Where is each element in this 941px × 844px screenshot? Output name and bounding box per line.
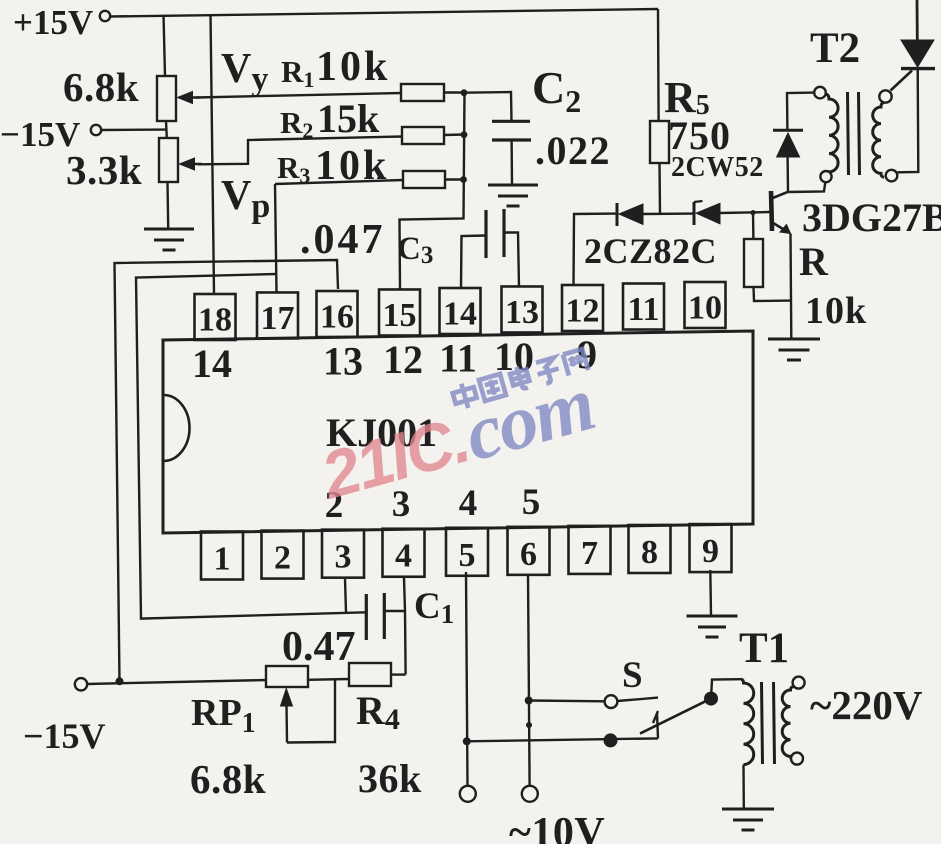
ground (T1) xyxy=(722,808,774,811)
wire C2 to ground xyxy=(510,140,513,184)
ground (C2) xyxy=(488,184,538,187)
svg-text:−15V: −15V xyxy=(23,716,106,756)
node junction dots on bus xyxy=(461,89,468,96)
wire pin 6 riser to terminal xyxy=(528,574,530,786)
svg-text:10k: 10k xyxy=(316,44,390,90)
wire pin17 net to C1 net xyxy=(136,274,366,619)
wire T1 primary to ground xyxy=(742,765,745,808)
svg-text:3: 3 xyxy=(335,539,352,576)
T1 secondary top terminal xyxy=(793,677,805,689)
svg-text:1: 1 xyxy=(214,541,231,578)
wire base junction down to R xyxy=(752,213,755,239)
wire +15V riser to pin 18 xyxy=(211,14,215,293)
wire emitter down to ground xyxy=(789,234,792,339)
wire pin 3 riser xyxy=(345,579,346,613)
svg-text:17: 17 xyxy=(261,300,295,337)
svg-text:6.8k: 6.8k xyxy=(190,756,266,802)
svg-text:3.3k: 3.3k xyxy=(66,147,142,193)
diode D2 2CZ82C xyxy=(693,202,696,225)
wire 3.3k to ground xyxy=(166,182,169,228)
wiper arrow of 3.3k pot xyxy=(184,163,202,165)
T2 secondary winding xyxy=(873,103,884,178)
IC U1 KJ001 xyxy=(163,331,753,533)
svg-text:~220V: ~220V xyxy=(810,682,923,728)
potentiometer 6.8k xyxy=(157,76,176,121)
capacitor C3 .047 xyxy=(484,210,487,258)
resistor R4 36k xyxy=(349,663,391,686)
wire C1 right to pin 4 riser xyxy=(384,610,405,612)
node pin5 terminal xyxy=(460,786,476,802)
wire Vy to R1 xyxy=(196,93,401,98)
pin 16 (top) xyxy=(317,291,358,337)
capacitor C1 xyxy=(365,594,368,640)
wire pin 16 to -15V rail (Vp net) xyxy=(115,260,339,681)
wire pin 12 riser xyxy=(574,214,618,285)
svg-text:.047: .047 xyxy=(300,217,386,263)
wire between pots xyxy=(165,121,168,138)
wire -15V to pot junction xyxy=(102,128,167,131)
IC notch xyxy=(164,395,190,461)
ground (pin 9) xyxy=(687,615,738,618)
pin 6 (bottom) xyxy=(508,527,550,575)
svg-text:12: 12 xyxy=(383,337,423,382)
svg-text:7: 7 xyxy=(581,535,598,572)
svg-text:5: 5 xyxy=(522,482,541,523)
wire R3 to bus xyxy=(445,178,464,180)
wire C3 to pin 13 xyxy=(504,233,519,288)
wire R5 to diode row xyxy=(658,163,661,214)
node pin6 terminal xyxy=(522,786,538,802)
wire pin 9 to ground xyxy=(709,570,712,615)
svg-text:10: 10 xyxy=(688,289,722,326)
wire SCR cathode down to T2 secondary xyxy=(897,69,918,172)
T2 primary winding xyxy=(826,94,839,172)
ground (emitter) xyxy=(768,338,820,341)
pin 7 (bottom) xyxy=(569,526,611,574)
T1 secondary winding xyxy=(782,687,793,761)
wire bus of R1-R3 down to pin 15 xyxy=(400,93,465,290)
diode D3 (across T2 primary) xyxy=(777,133,800,157)
pin 9 (bottom) xyxy=(690,524,732,572)
switch S arm xyxy=(640,699,711,734)
switch S pole xyxy=(704,692,718,706)
node base/R junction xyxy=(750,210,755,215)
wire collector node to T2 primary bottom xyxy=(788,182,825,192)
wire RP1 to R4 xyxy=(308,678,349,681)
svg-text:9: 9 xyxy=(702,533,719,570)
svg-text:14: 14 xyxy=(192,341,232,386)
svg-text:16: 16 xyxy=(320,299,354,336)
wiper arrow of 6.8k pot (Vy) xyxy=(182,96,200,98)
ground (3.3k) xyxy=(144,228,194,231)
switch S lower contact xyxy=(604,733,618,747)
pin 13 (top) xyxy=(502,286,543,332)
wire bus to C2 xyxy=(464,92,512,121)
pin 8 (bottom) xyxy=(629,525,671,573)
wire R3/pin17 vertical xyxy=(275,184,277,292)
pin 2 (bottom) xyxy=(262,531,304,579)
resistor R 10k xyxy=(744,239,763,287)
thyristor V1 xyxy=(916,0,919,40)
wire +15V top rail xyxy=(110,9,658,17)
wire 3.3k wiper to R2 xyxy=(198,137,402,165)
T2 core xyxy=(848,92,849,175)
pin 12 (top) xyxy=(562,285,603,331)
pin 17 (top) xyxy=(257,292,298,338)
svg-text:36k: 36k xyxy=(358,756,422,801)
wire R bottom to emitter line xyxy=(754,287,792,301)
wiper arrow of RP1 xyxy=(285,705,288,743)
pin 14 (top) xyxy=(440,288,481,334)
pin 3 (bottom) xyxy=(322,530,364,578)
svg-text:2: 2 xyxy=(274,540,291,577)
svg-text:3DG27B: 3DG27B xyxy=(802,195,941,240)
svg-text:4: 4 xyxy=(459,483,478,524)
svg-text:.022: .022 xyxy=(535,128,611,173)
svg-text:2CW52: 2CW52 xyxy=(671,152,764,183)
wire pin 5 riser to terminal xyxy=(466,572,468,786)
wire switch pole to T1 primary xyxy=(711,679,741,698)
T1 primary winding xyxy=(741,679,754,764)
svg-text:S: S xyxy=(622,655,643,696)
resistor R5 750 xyxy=(650,121,669,163)
wire RP1 wiper loop xyxy=(287,679,335,742)
resistor R2 15k xyxy=(402,127,444,144)
decorative watermark xyxy=(312,349,602,513)
resistor R1 10k xyxy=(401,84,444,101)
svg-text:15: 15 xyxy=(383,297,417,334)
wire -15V rail to RP1 xyxy=(87,680,266,684)
svg-text:11: 11 xyxy=(627,291,659,328)
node junction of left net xyxy=(116,677,124,685)
transistor Q1 3DG27B xyxy=(771,191,772,231)
wire R4 right xyxy=(391,673,406,675)
wire D2 to transistor base xyxy=(720,212,770,213)
node -15V terminal xyxy=(91,125,101,135)
svg-text:2CZ82C: 2CZ82C xyxy=(584,231,717,271)
svg-text:10k: 10k xyxy=(805,290,867,332)
wire SCR gate to T2 secondary top xyxy=(891,71,913,91)
wire diode to T2 primary top xyxy=(787,93,814,130)
svg-text:18: 18 xyxy=(198,302,232,339)
svg-text:T2: T2 xyxy=(810,25,860,72)
svg-text:14: 14 xyxy=(443,295,477,332)
svg-text:8: 8 xyxy=(641,534,658,571)
svg-text:6: 6 xyxy=(520,536,537,573)
wire R3 left xyxy=(275,180,403,184)
svg-text:11: 11 xyxy=(439,336,477,381)
pin 5 (bottom) xyxy=(446,528,488,576)
wire branch to 6.8k pot xyxy=(164,15,166,76)
pin 18 (top) xyxy=(195,294,236,340)
svg-text:R: R xyxy=(799,239,829,284)
svg-text:15k: 15k xyxy=(317,96,380,141)
svg-text:T1: T1 xyxy=(739,625,789,672)
pin 11 (top) xyxy=(623,284,664,330)
pin 4 (bottom) xyxy=(383,529,425,577)
wire pin6 to switch upper contact xyxy=(529,699,604,702)
T2 primary top terminal xyxy=(814,87,826,99)
resistor R3 10k xyxy=(403,171,445,188)
svg-text:6.8k: 6.8k xyxy=(63,64,139,110)
capacitor C2 .022 xyxy=(492,120,530,123)
node -15V bottom terminal xyxy=(75,678,87,690)
svg-text:12: 12 xyxy=(566,292,600,329)
wire pin5 to switch lower contact xyxy=(467,738,658,741)
potentiometer 3.3k xyxy=(159,138,178,182)
T2 secondary bottom terminal xyxy=(886,170,898,182)
potentiometer RP1 6.8k xyxy=(266,666,308,687)
wire R2 to bus xyxy=(444,133,464,136)
wire R1 to bus xyxy=(444,91,464,93)
wire pin 4 riser down to R4 xyxy=(404,578,406,674)
T2 primary bottom terminal xyxy=(820,171,831,182)
pin 15 (top) xyxy=(379,289,420,335)
svg-text:5: 5 xyxy=(459,537,476,574)
svg-text:4: 4 xyxy=(395,538,412,575)
svg-text:~10V: ~10V xyxy=(509,810,605,844)
svg-text:13: 13 xyxy=(505,294,539,331)
svg-text:0.47: 0.47 xyxy=(282,624,356,670)
svg-text:13: 13 xyxy=(323,339,363,384)
wire top rail down to R5 xyxy=(657,9,660,121)
diode D1 2CZ82C xyxy=(616,203,619,226)
T2 secondary top terminal xyxy=(879,90,891,102)
T1 secondary bottom terminal xyxy=(791,753,803,765)
node +15V terminal xyxy=(100,11,110,21)
wire collector node up to diode xyxy=(786,157,789,192)
wire pin 14 riser to C3 xyxy=(461,236,486,289)
pin 10 (top) xyxy=(685,282,726,328)
pin 1 (bottom) xyxy=(201,532,243,580)
T1 core xyxy=(762,682,763,764)
svg-text:+15V: +15V xyxy=(13,3,93,42)
switch S upper contact xyxy=(605,695,618,708)
